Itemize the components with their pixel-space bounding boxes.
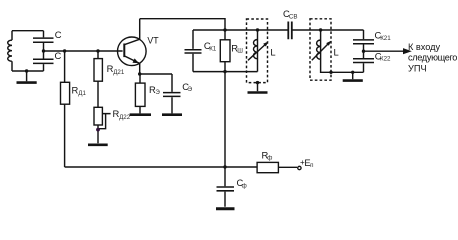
svg-text:Э: Э bbox=[188, 86, 193, 93]
svg-text:Д22: Д22 bbox=[119, 114, 131, 121]
svg-text:Д1: Д1 bbox=[78, 90, 86, 97]
svg-text:Э: Э bbox=[155, 89, 160, 96]
svg-text:ф: ф bbox=[267, 154, 272, 161]
svg-text:К22: К22 bbox=[380, 56, 391, 63]
svg-text:C: C bbox=[55, 29, 62, 40]
svg-text:следующего: следующего bbox=[408, 53, 457, 63]
svg-text:п: п bbox=[310, 162, 313, 169]
svg-text:VT: VT bbox=[147, 36, 159, 46]
svg-text:СВ: СВ bbox=[289, 14, 298, 21]
svg-text:L: L bbox=[334, 47, 339, 58]
svg-text:L: L bbox=[270, 47, 275, 58]
svg-text:К1: К1 bbox=[209, 45, 217, 52]
svg-text:ф: ф bbox=[242, 182, 247, 189]
svg-text:К входу: К входу bbox=[408, 42, 441, 52]
svg-text:К21: К21 bbox=[380, 35, 391, 42]
svg-text:Д21: Д21 bbox=[113, 69, 125, 76]
svg-text:УПЧ: УПЧ bbox=[408, 63, 427, 73]
svg-text:C: C bbox=[55, 50, 62, 61]
svg-text:Ш: Ш bbox=[237, 48, 243, 55]
